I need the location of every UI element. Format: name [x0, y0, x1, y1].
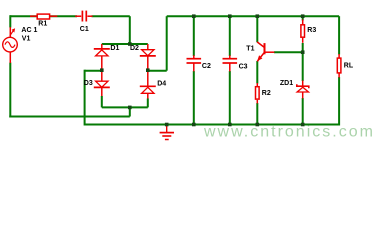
wire bridge left link vertical	[84, 70, 86, 126]
capacitor C1	[75, 11, 92, 22]
diode D2	[140, 44, 156, 70]
wire input top rail left of C1	[10, 15, 77, 17]
wire R3 bottom to node	[302, 43, 304, 53]
node bridge top	[128, 42, 132, 46]
node R3 top	[301, 14, 305, 18]
svg-text:V1: V1	[22, 35, 31, 42]
zener diode ZD1	[297, 81, 309, 99]
wire AC return riser	[129, 107, 131, 116]
svg-text:C2: C2	[202, 63, 211, 70]
node bridge left	[100, 68, 104, 72]
wire C2 column bottom	[193, 71, 195, 125]
svg-text:C3: C3	[239, 63, 248, 70]
wire T1 base to R3 node	[274, 51, 303, 53]
svg-text:D3: D3	[84, 80, 93, 87]
wire bridge left link horizontal	[85, 70, 102, 72]
wire bridge right link riser	[166, 16, 168, 70]
svg-text:AC 1: AC 1	[21, 27, 37, 34]
node ground symbol	[165, 123, 169, 127]
wire V1 top column	[9, 15, 11, 27]
wire RL column top	[338, 16, 340, 54]
ground	[160, 125, 174, 140]
svg-text:R2: R2	[262, 90, 271, 97]
wire C2 column top	[193, 16, 195, 56]
wire ground rail	[85, 124, 340, 126]
svg-text:R3: R3	[307, 27, 316, 34]
svg-text:R1: R1	[38, 21, 47, 28]
wire bridge bottom rail	[102, 106, 148, 108]
node R2 bottom	[256, 123, 260, 127]
wire input top rail right of C1	[92, 15, 130, 17]
wire node to ZD1 top	[302, 52, 304, 81]
wire T1 collector column	[256, 16, 258, 42]
svg-text:ZD1: ZD1	[280, 80, 293, 87]
resistor RL	[337, 54, 341, 78]
wire ZD1 bottom column	[302, 98, 304, 125]
svg-text:D2: D2	[130, 45, 139, 52]
wire output top rail	[167, 15, 339, 17]
node bridge right	[146, 68, 150, 72]
wire bridge right link horizontal	[148, 70, 167, 72]
node C3 top	[228, 14, 232, 18]
diode D4	[140, 70, 156, 107]
resistor R2	[256, 83, 260, 103]
wire AC return bottom	[9, 116, 130, 118]
resistor R3	[301, 20, 305, 43]
node ZD1 bottom	[301, 123, 305, 127]
resistor R1	[30, 14, 57, 19]
capacitor C3	[223, 55, 238, 71]
svg-text:T1: T1	[246, 46, 254, 53]
wire RL column bottom	[338, 77, 340, 126]
svg-text:RL: RL	[344, 63, 354, 70]
diode D1	[94, 44, 110, 70]
node base R3 ZD1	[301, 50, 305, 54]
node C2 bottom	[192, 123, 196, 127]
svg-text:D4: D4	[157, 81, 166, 88]
AC source V1	[3, 27, 18, 63]
wire R3 top stub	[302, 16, 304, 20]
node C2 top	[192, 14, 196, 18]
svg-text:C1: C1	[80, 26, 89, 33]
wire R2 column bottom	[256, 103, 258, 125]
wire C3 column top	[229, 16, 231, 56]
transistor T1	[257, 42, 274, 62]
svg-text:D1: D1	[110, 45, 119, 52]
wire riser input rail to bridge top	[129, 16, 131, 44]
wire T1 emitter column	[256, 61, 258, 84]
node bridge bottom	[128, 106, 132, 110]
wire V1 bottom column	[9, 63, 11, 118]
node C3 bottom	[228, 123, 232, 127]
diode D3	[94, 70, 110, 107]
wire C3 column bottom	[229, 71, 231, 125]
wire bridge top rail	[102, 43, 148, 45]
capacitor C2	[187, 55, 202, 71]
node T1 collector top	[256, 14, 260, 18]
